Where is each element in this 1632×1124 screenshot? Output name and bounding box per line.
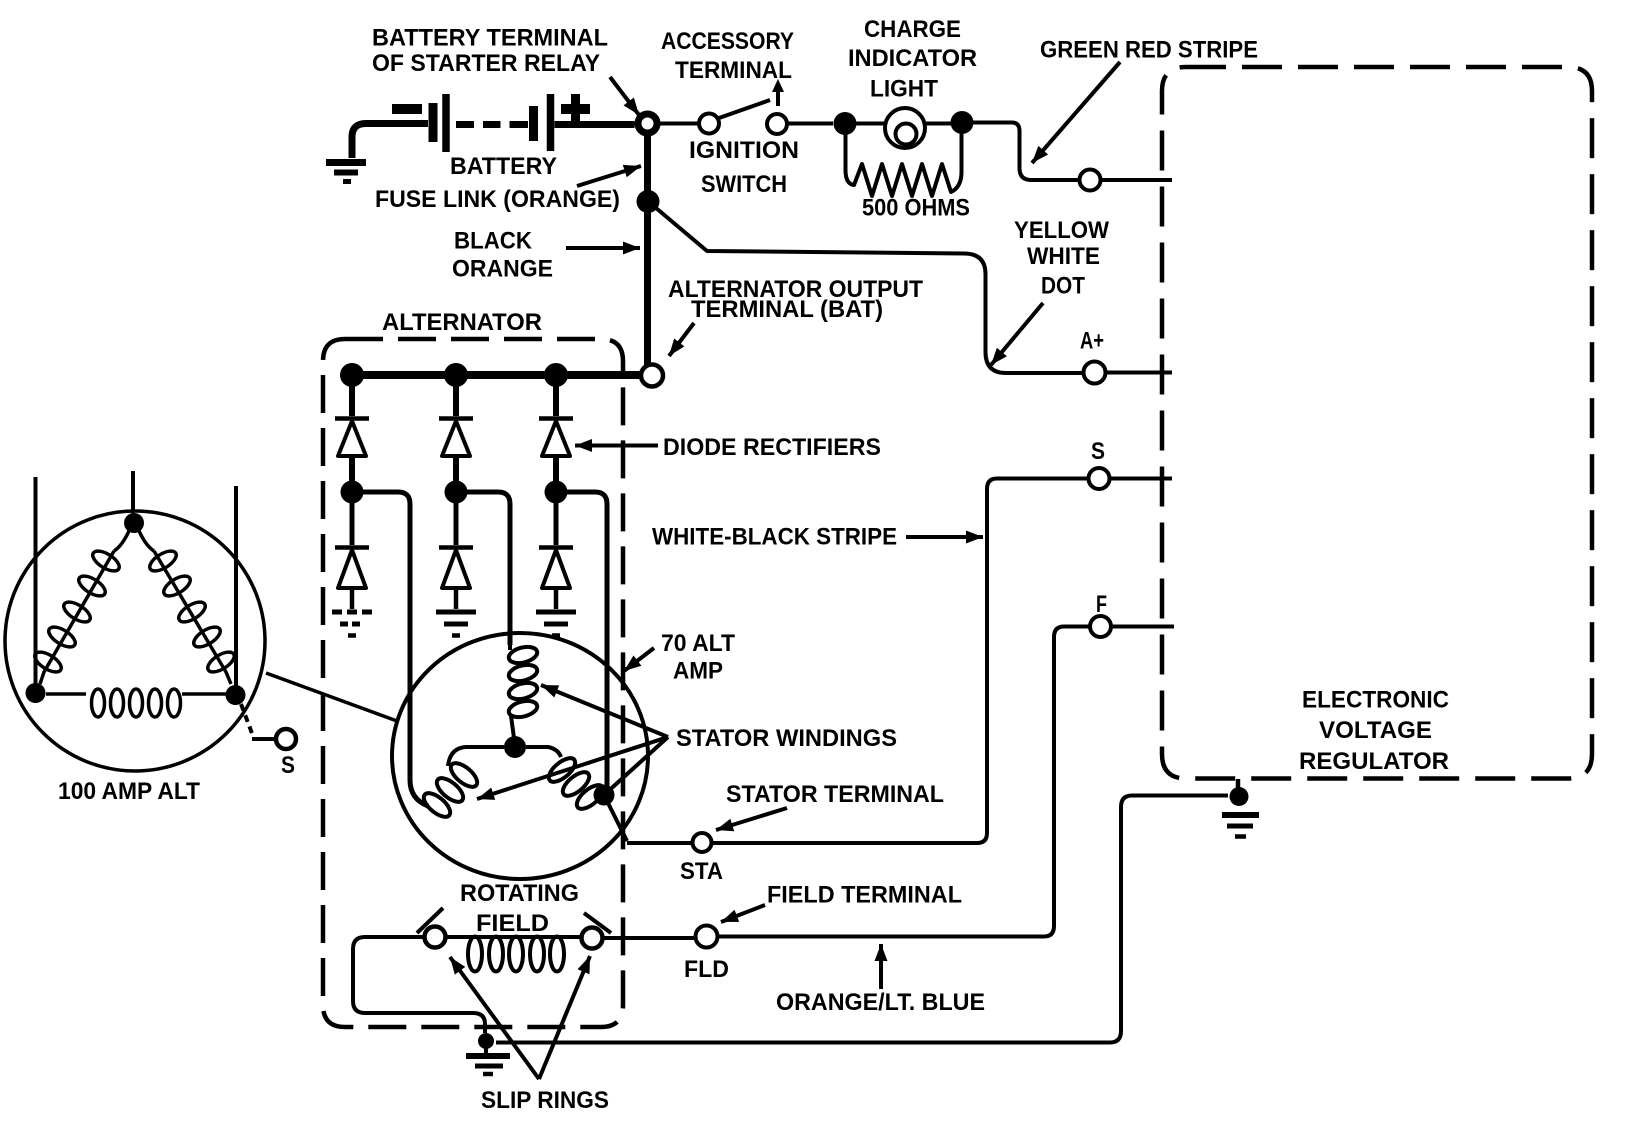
brush tick right	[584, 913, 611, 933]
svg-text:STATOR TERMINAL: STATOR TERMINAL	[726, 781, 944, 808]
wire terminal to regulator	[1101, 178, 1172, 182]
pointer white-black stripe	[906, 535, 983, 539]
svg-text:BLACK: BLACK	[454, 228, 533, 255]
pointer slip rings right	[539, 956, 590, 1079]
node delta corner top	[124, 513, 144, 533]
svg-text:WHITE: WHITE	[1027, 243, 1100, 270]
svg-text:DIODE RECTIFIERS: DIODE RECTIFIERS	[663, 434, 881, 461]
svg-text:DOT: DOT	[1041, 273, 1085, 300]
wire junction to lamp	[856, 122, 886, 126]
wire S terminal to regulator edge	[1110, 477, 1172, 481]
switch S1 ignition switch	[699, 79, 787, 134]
terminal S of regulator	[1089, 468, 1110, 489]
node rectifier junction 2	[445, 481, 468, 504]
ground (battery negative ground)	[326, 124, 428, 182]
node rectifier junction 1	[341, 481, 364, 504]
wire phase 3 to stator	[556, 492, 607, 788]
rotor slip ring left	[425, 927, 446, 948]
pointer stator windings top	[541, 685, 668, 737]
node battery terminal of starter relay (ring junction)	[638, 114, 657, 133]
svg-text:ORANGE/LT. BLUE: ORANGE/LT. BLUE	[776, 989, 985, 1016]
svg-text:REGULATOR: REGULATOR	[1299, 748, 1449, 775]
wire rotor left to alternator ground	[353, 937, 485, 1033]
battery BATTERY	[392, 94, 635, 152]
wire output bus (heavy)	[347, 371, 641, 379]
ground (lower diode 2)	[436, 612, 476, 636]
rotating field coil L1	[446, 937, 581, 972]
alternator box (dashed)	[323, 339, 623, 1027]
svg-text:SLIP RINGS: SLIP RINGS	[481, 1087, 609, 1114]
delta winding bottom coil	[46, 689, 226, 717]
svg-text:BATTERY: BATTERY	[450, 153, 557, 180]
wire ground bus regulator to alternator	[496, 796, 1228, 1043]
svg-text:FIELD TERMINAL: FIELD TERMINAL	[767, 882, 962, 909]
svg-text:A+: A+	[1080, 328, 1104, 355]
svg-text:F: F	[1096, 591, 1107, 618]
svg-text:LIGHT: LIGHT	[870, 76, 938, 103]
svg-text:WHITE-BLACK STRIPE: WHITE-BLACK STRIPE	[652, 524, 897, 551]
pointer orange/lt blue	[879, 944, 883, 989]
diode D4 (lower left)	[335, 503, 369, 609]
pointer stator terminal	[716, 808, 787, 830]
wire yellow-white-dot run to A+ terminal	[656, 208, 1083, 373]
100 amp alternator frame circle	[5, 511, 265, 771]
wire junction to ignition switch	[657, 122, 699, 126]
node black-orange junction	[637, 190, 660, 213]
node lamp left junction	[834, 112, 857, 135]
svg-text:YELLOW: YELLOW	[1014, 217, 1109, 244]
pointer green red stripe	[1032, 62, 1120, 163]
ground (lower diode 3)	[536, 612, 576, 636]
regulator U1 electronic voltage regulator (dashed box)	[1162, 67, 1592, 779]
wire fuse link (heavy vertical)	[644, 134, 651, 365]
node delta corner left	[26, 683, 46, 703]
pointer alternator output terminal	[669, 323, 694, 356]
pointer fuse link	[577, 166, 641, 186]
svg-text:AMP: AMP	[673, 658, 723, 685]
node bus junction 2	[444, 363, 468, 387]
brush tick left	[417, 908, 443, 933]
pointer diode rectifiers	[575, 444, 658, 448]
wire S sense lead	[252, 737, 276, 741]
terminal F of regulator	[1090, 616, 1111, 637]
node stator wye center	[504, 736, 526, 758]
ground (lower diode 1)	[332, 612, 372, 636]
wire regulator ground stub	[1236, 779, 1241, 790]
ground (alternator/slip ring ground)	[466, 1056, 510, 1074]
stator winding top coil	[507, 644, 539, 738]
terminal BAT alternator output terminal	[641, 365, 663, 387]
pointer 70 alt amp	[624, 648, 654, 671]
svg-text:FUSE LINK (ORANGE): FUSE LINK (ORANGE)	[375, 186, 620, 213]
svg-text:OF STARTER RELAY: OF STARTER RELAY	[372, 50, 600, 77]
svg-text:FIELD: FIELD	[476, 910, 549, 937]
delta winding left side coil	[32, 531, 129, 684]
wire white-black stripe (STA to S)	[712, 479, 1088, 844]
svg-text:TERMINAL (BAT): TERMINAL (BAT)	[691, 296, 883, 323]
wire dashed to S sense terminal	[241, 704, 253, 736]
svg-text:ACCESSORY: ACCESSORY	[661, 28, 794, 55]
pointer field terminal	[721, 905, 765, 922]
node delta corner right	[226, 685, 246, 705]
ground (regulator ground)	[1222, 815, 1259, 837]
svg-text:S: S	[1091, 438, 1105, 465]
diode D6 (lower right)	[539, 503, 573, 609]
node alternator ground junction	[478, 1033, 494, 1049]
wire phase lead top	[131, 471, 135, 514]
wire pointer 100 amp alt to stator	[266, 673, 397, 721]
wire phase lead left	[34, 477, 38, 684]
wire phase lead right	[234, 486, 238, 686]
svg-text:ELECTRONIC: ELECTRONIC	[1302, 687, 1449, 714]
wire phase 2 to stator	[456, 492, 510, 645]
svg-text:STA: STA	[680, 858, 723, 885]
svg-text:GREEN RED STRIPE: GREEN RED STRIPE	[1040, 37, 1258, 64]
svg-text:INDICATOR: INDICATOR	[848, 45, 977, 72]
node rectifier junction 3	[545, 481, 568, 504]
svg-text:IGNITION: IGNITION	[689, 137, 799, 164]
rotor slip ring right	[582, 928, 603, 949]
svg-text:CHARGE: CHARGE	[864, 16, 961, 43]
svg-text:ORANGE: ORANGE	[452, 256, 553, 283]
lamp DS1 charge indicator light	[885, 108, 925, 148]
diode D5 (lower middle)	[439, 503, 473, 609]
node bus junction 1	[340, 363, 364, 387]
terminal green red stripe	[1080, 170, 1101, 191]
wire lamp node to green-red-stripe terminal	[973, 123, 1079, 181]
diode D3 (upper right)	[539, 375, 573, 492]
svg-text:VOLTAGE: VOLTAGE	[1319, 717, 1432, 744]
node regulator ground junction	[1230, 787, 1249, 806]
resistor R1 500 ohms	[846, 133, 962, 196]
wire lamp to right junction	[924, 122, 951, 126]
terminal S (100 amp alt)	[276, 729, 296, 749]
svg-text:SWITCH: SWITCH	[701, 171, 787, 198]
pointer yellow white dot	[991, 303, 1043, 365]
pointer battery terminal of starter relay	[610, 77, 639, 115]
pointer stator windings left	[477, 737, 668, 799]
wire alternator edge to STA	[627, 841, 692, 845]
wire stator junction to STA terminal	[608, 803, 627, 841]
wire F terminal to regulator edge	[1111, 625, 1174, 629]
svg-text:70 ALT: 70 ALT	[661, 630, 735, 657]
wire rotor right to FLD	[603, 936, 695, 940]
terminal FLD field terminal	[696, 926, 718, 948]
node lamp right junction	[951, 111, 974, 134]
diode D2 (upper middle)	[439, 375, 473, 492]
terminal STA stator terminal	[693, 833, 712, 852]
svg-text:S: S	[281, 752, 295, 779]
svg-text:ROTATING: ROTATING	[460, 880, 579, 907]
stator frame circle (70 amp)	[392, 633, 648, 879]
node stator output junction	[594, 785, 615, 806]
diode D1 (upper left)	[335, 375, 369, 492]
stator winding right coil	[526, 747, 607, 813]
svg-text:FLD: FLD	[684, 956, 729, 983]
pointer slip rings left	[450, 957, 539, 1079]
wire orange/lt-blue (FLD to F)	[718, 627, 1090, 937]
svg-text:ALTERNATOR: ALTERNATOR	[382, 309, 542, 336]
svg-text:TERMINAL: TERMINAL	[675, 57, 792, 84]
terminal A+	[1084, 362, 1106, 384]
delta winding right side coil	[139, 531, 237, 684]
pointer stator windings right	[604, 737, 668, 795]
wire switch to lamp node	[787, 122, 833, 126]
svg-text:100 AMP ALT: 100 AMP ALT	[58, 778, 200, 805]
svg-text:STATOR WINDINGS: STATOR WINDINGS	[676, 725, 897, 752]
pointer black orange	[566, 246, 640, 250]
svg-text:BATTERY TERMINAL: BATTERY TERMINAL	[372, 25, 608, 52]
node bus junction 3	[544, 363, 568, 387]
stator winding left coil	[420, 747, 504, 821]
wire phase 1 to stator	[352, 492, 428, 806]
svg-text:500 OHMS: 500 OHMS	[862, 195, 970, 222]
